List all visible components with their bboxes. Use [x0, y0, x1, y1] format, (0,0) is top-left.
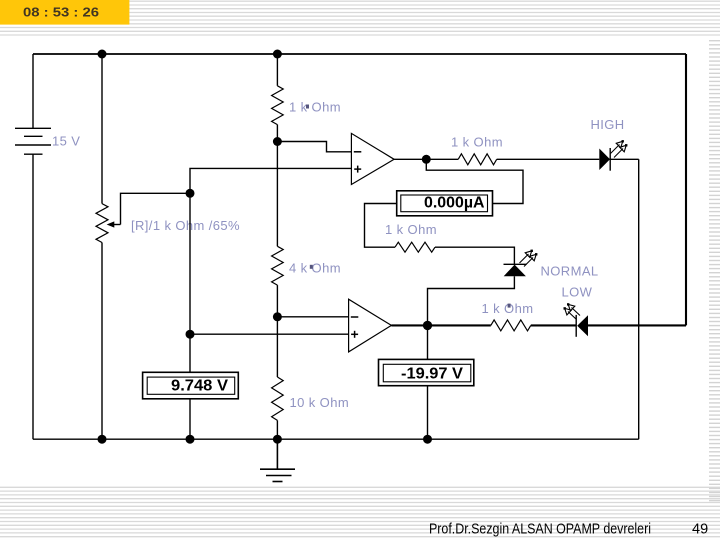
resistor 1k (low) [491, 320, 531, 331]
op-amp U2 [349, 299, 392, 352]
voltmeter 9.748 V [143, 372, 239, 399]
junction bottom rail / voltmeter M2 [423, 435, 432, 444]
svg-text:LOW: LOW [562, 285, 593, 300]
junction op2 output node [423, 321, 432, 330]
potentiometer branch wire [101, 54, 103, 204]
wire top rail to R2 [276, 54, 278, 86]
wire 4k to 10k [276, 285, 278, 377]
wire node to meter1 [189, 193, 191, 372]
resistor 4k [272, 246, 284, 285]
svg-text:4 k Ohm: 4 k Ohm [289, 260, 341, 275]
wire wiper to node [121, 193, 191, 224]
wire to NORMAL led [435, 247, 514, 264]
wire R2 to op1 minus node [276, 125, 278, 142]
wire op1 minus input [277, 142, 351, 152]
op-amp U1 [351, 133, 394, 184]
junction node op1 inverting input [273, 137, 282, 146]
ground [260, 439, 295, 481]
junction bottom rail / battery-pot [98, 435, 107, 444]
wire ammeter left [365, 204, 397, 248]
resistor R2 1 kOhm [272, 86, 284, 125]
svg-text:-19.97 V: -19.97 V [401, 365, 464, 382]
wire to LOW led [531, 324, 576, 326]
svg-text:1 k Ohm: 1 k Ohm [482, 301, 534, 316]
svg-text:1 k Ohm: 1 k Ohm [451, 135, 503, 150]
junction bottom rail / ground [273, 435, 282, 444]
wire meter2 to bottom [427, 386, 429, 440]
label artifact dots [306, 105, 511, 308]
LED HIGH [599, 140, 627, 171]
wire op2 plus input [190, 333, 349, 335]
junction bottom rail / voltmeter M1 [186, 435, 195, 444]
pot wiper arrow [107, 221, 115, 227]
wire meter1 to bottom [189, 399, 191, 439]
timer box [0, 0, 129, 25]
potentiometer R 1 kOhm 65% [96, 204, 108, 243]
svg-text:49: 49 [692, 522, 708, 538]
wire op1 output [394, 158, 458, 160]
wire 10k to bottom rail [276, 420, 278, 439]
ammeter 0.000uA [397, 191, 493, 216]
wire HIGH led to corner [610, 158, 639, 160]
wire op1 out to ammeter [426, 159, 523, 203]
wire HIGH branch down to bottom rail [638, 159, 640, 439]
junction top rail / pot branch [98, 50, 107, 59]
wire op2 node to meter2 [427, 325, 429, 359]
junction pot wiper node [186, 189, 195, 198]
junction top rail / R2 branch [273, 50, 282, 59]
wire bottom rail [33, 438, 639, 440]
wire op2 minus input [277, 316, 348, 318]
svg-text:[R]/1 k Ohm /65%: [R]/1 k Ohm /65% [131, 218, 240, 233]
svg-text:10 k Ohm: 10 k Ohm [290, 395, 350, 410]
wire LOW to right [588, 324, 686, 326]
svg-text:08 : 53 : 26: 08 : 53 : 26 [23, 6, 99, 20]
wire top rail [33, 53, 686, 55]
svg-text:15 V: 15 V [52, 134, 80, 149]
resistor 1k (high) [458, 154, 497, 165]
svg-text:HIGH: HIGH [591, 117, 625, 132]
wire mid vertical [276, 142, 278, 247]
wire NORMAL return [428, 276, 515, 325]
svg-text:NORMAL: NORMAL [541, 263, 599, 278]
LED LOW [564, 303, 589, 337]
voltmeter -19.97 V [379, 359, 474, 385]
svg-text:0.000µA: 0.000µA [424, 194, 485, 211]
svg-text:1 k Ohm: 1 k Ohm [289, 100, 341, 115]
wire op1 plus input [190, 168, 351, 193]
svg-text:9.748 V: 9.748 V [171, 377, 229, 394]
wire op2 output [391, 324, 427, 326]
battery V1 15V [15, 54, 51, 439]
junction node op2 inverting input [273, 312, 282, 321]
resistor 10k [272, 377, 284, 420]
svg-text:1 k Ohm: 1 k Ohm [385, 222, 437, 237]
wire to LOW resistor [428, 324, 491, 326]
wire pot to bottom rail [101, 243, 103, 440]
LED NORMAL [504, 250, 538, 277]
junction node op2 non-inverting input [186, 330, 195, 339]
resistor 1k (mid) [395, 242, 435, 252]
svg-text:Prof.Dr.Sezgin ALSAN OPAMP de: Prof.Dr.Sezgin ALSAN OPAMP devreleri [429, 522, 651, 538]
wire right edge [685, 54, 687, 325]
junction op1 output node [422, 155, 431, 164]
wire to HIGH led [497, 158, 600, 160]
